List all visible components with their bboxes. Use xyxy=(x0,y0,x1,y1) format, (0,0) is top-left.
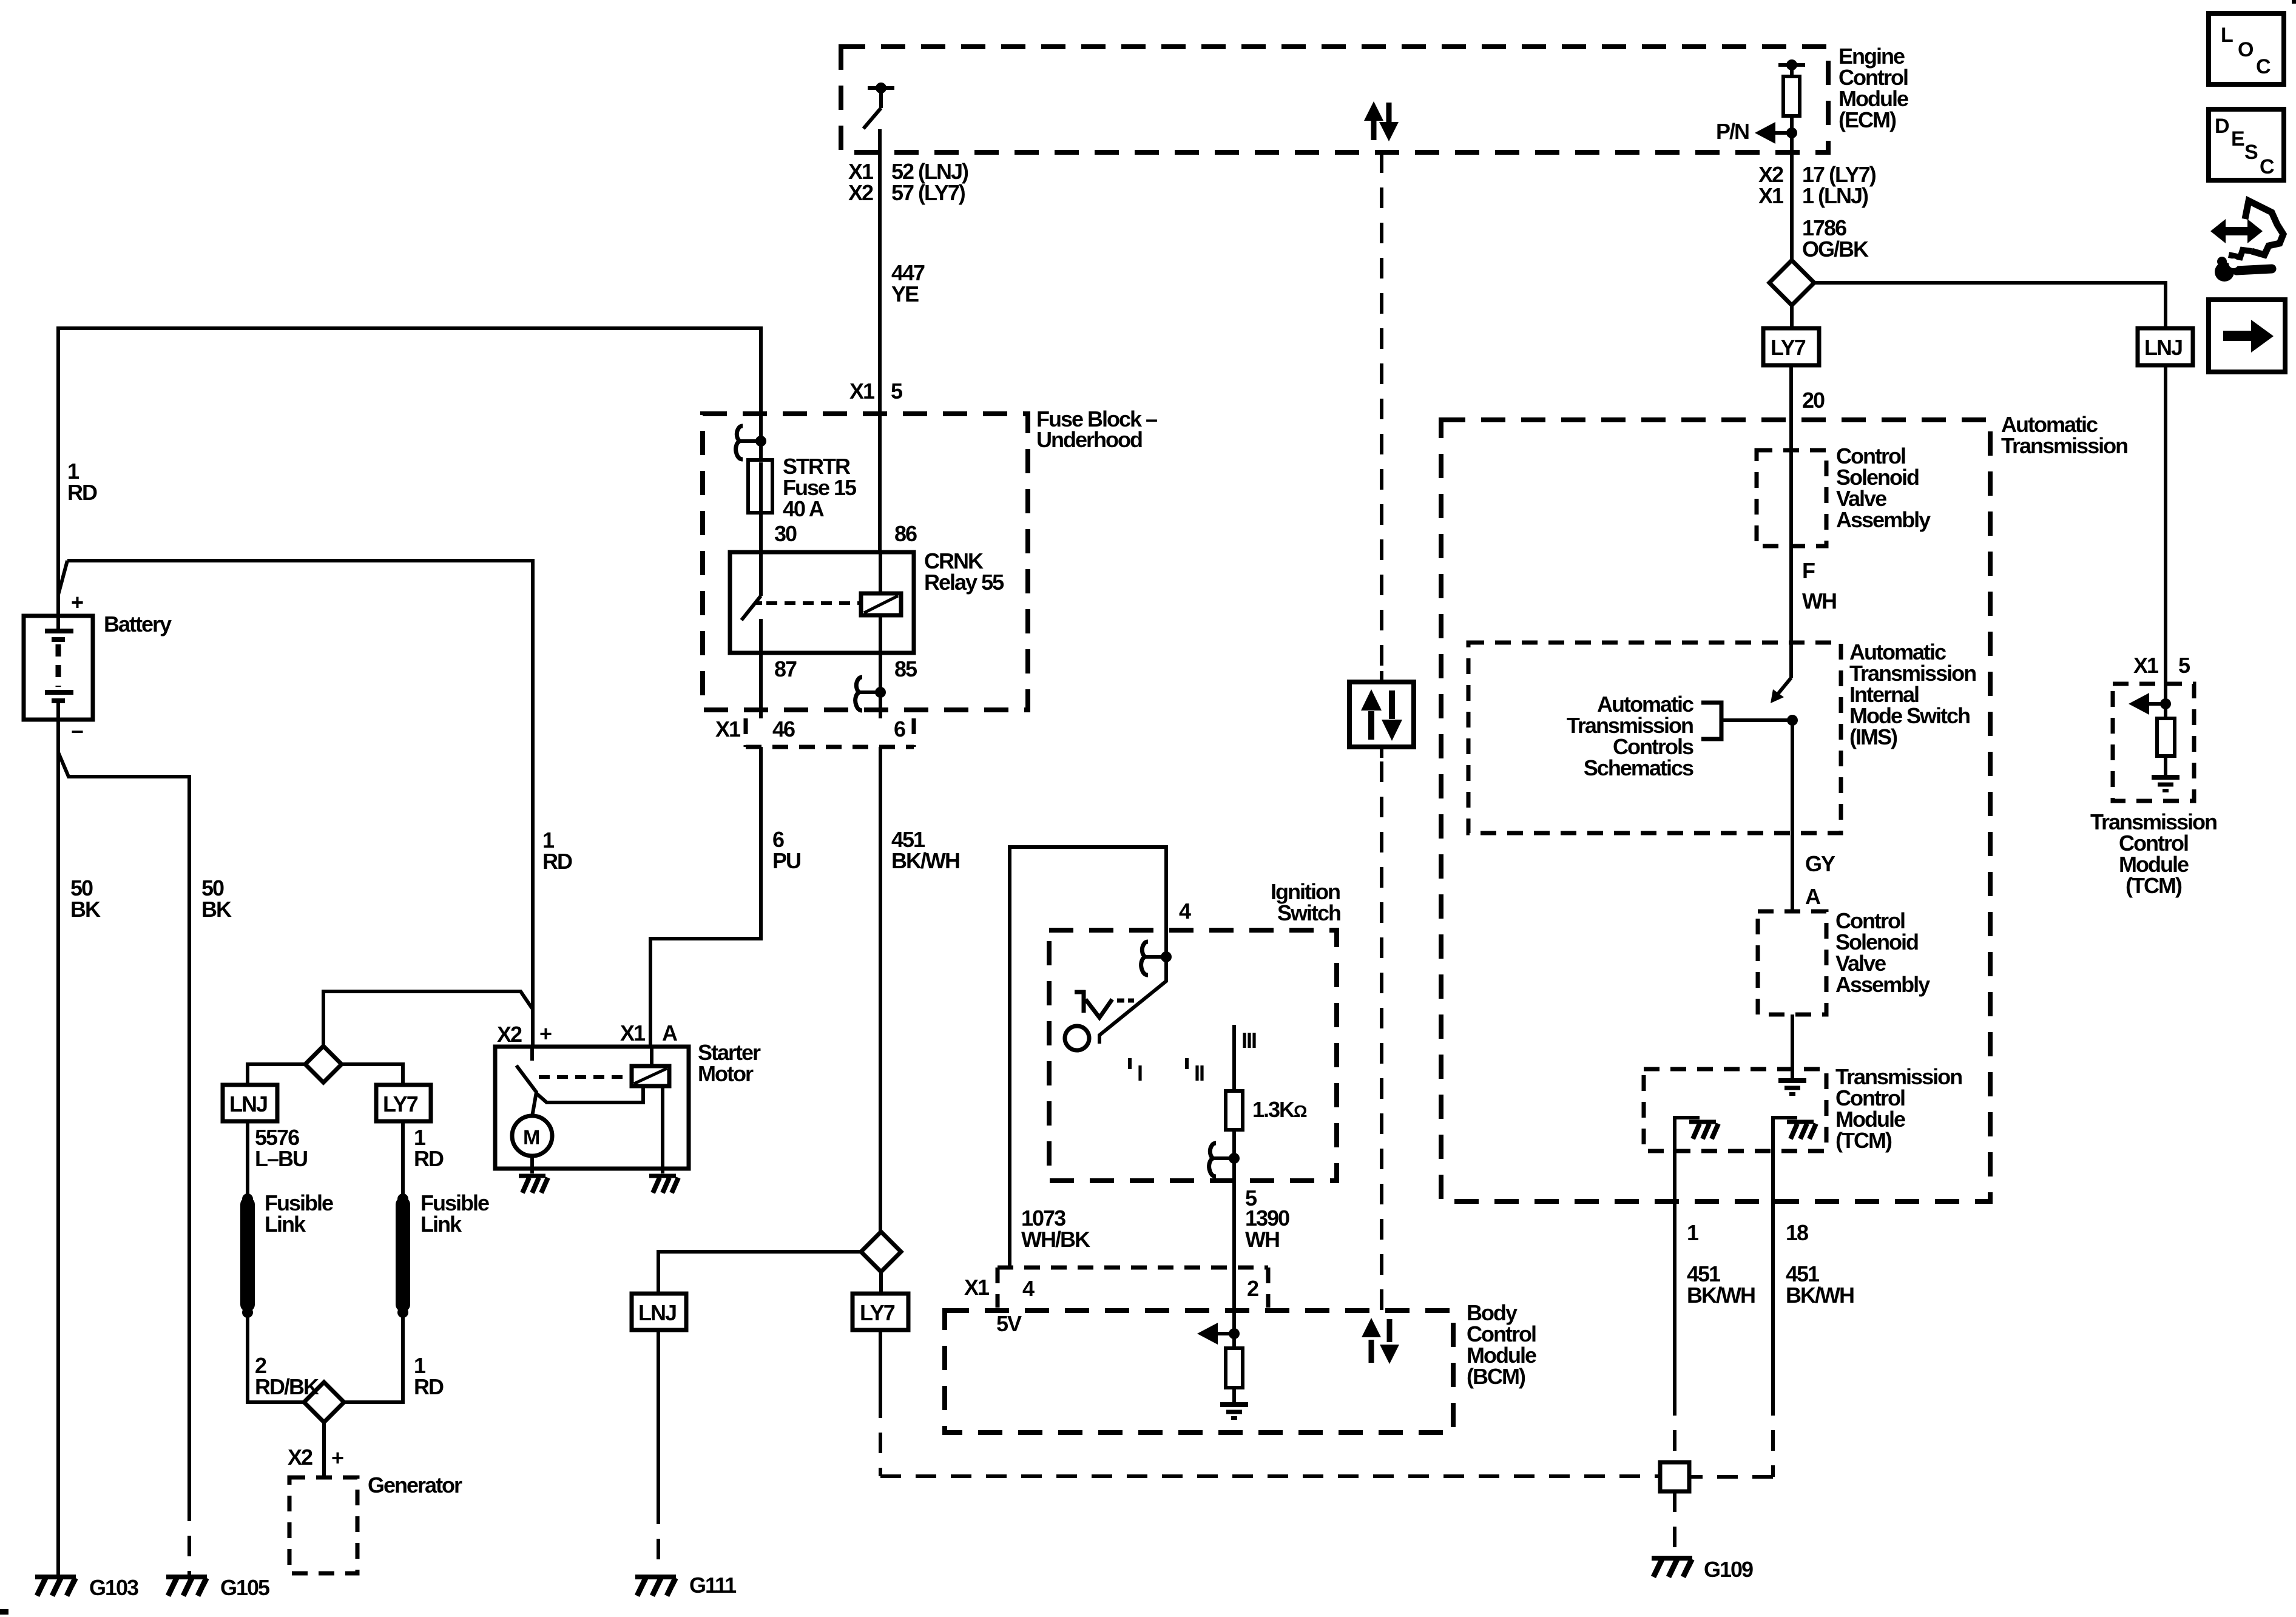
starter relay dashed link xyxy=(539,1075,630,1079)
svg-text:GY: GY xyxy=(1805,851,1835,876)
starter motor box xyxy=(495,1047,689,1169)
svg-text:Transmission: Transmission xyxy=(2001,433,2127,458)
svg-text:BK/WH: BK/WH xyxy=(891,848,959,873)
svg-text:A: A xyxy=(662,1021,678,1045)
svg-text:+: + xyxy=(539,1021,552,1046)
wire pin 87 down xyxy=(759,653,763,718)
wire stub into gear selector icon xyxy=(1380,671,1383,682)
splice diamond 1786 xyxy=(1769,260,1814,305)
wire coil to case ground xyxy=(661,1086,664,1169)
splice diamond 451 xyxy=(861,1232,901,1272)
wire battery positive riser xyxy=(56,326,60,616)
svg-text:18: 18 xyxy=(1786,1220,1808,1245)
svg-text:Battery: Battery xyxy=(104,612,172,636)
wire battery negative down to G103 xyxy=(56,720,60,1575)
svg-text:5: 5 xyxy=(2178,653,2190,678)
svg-text:Relay 55: Relay 55 xyxy=(924,570,1004,595)
TCM earth ground xyxy=(1778,1081,1806,1094)
wire 20 WH inside xyxy=(1789,450,1793,678)
IMS switch blade xyxy=(1777,678,1791,695)
svg-text:M: M xyxy=(523,1126,539,1149)
wire stub below gear selector icon xyxy=(1380,747,1383,758)
svg-text:86: 86 xyxy=(894,521,917,546)
wire 447 YE from ECM xyxy=(878,129,882,552)
splice diamond generator bottom xyxy=(304,1382,344,1422)
connector box LNJ left xyxy=(223,1085,277,1121)
wire diamond to LNJ bottom xyxy=(658,1252,861,1294)
TCM arrow xyxy=(2160,698,2171,709)
connector box LY7 left xyxy=(376,1085,431,1121)
svg-text:Generator: Generator xyxy=(368,1473,462,1497)
svg-text:P/N: P/N xyxy=(1716,119,1749,144)
svg-text:RD: RD xyxy=(414,1374,444,1399)
wire battery feed inside fuse block xyxy=(759,414,763,460)
fusible link left xyxy=(240,1204,255,1305)
starter ground right xyxy=(661,1169,664,1173)
generator dashed box xyxy=(289,1477,357,1573)
svg-text:X1: X1 xyxy=(620,1021,646,1045)
IMS bracket xyxy=(1701,703,1721,739)
wire 46 to starter A xyxy=(650,747,761,1047)
ignition key symbol xyxy=(1075,990,1086,1013)
wire diamond to LNJ xyxy=(248,1064,305,1085)
svg-text:III: III xyxy=(1241,1028,1256,1053)
svg-text:PU: PU xyxy=(772,848,800,873)
svg-text:20: 20 xyxy=(1802,388,1825,413)
svg-text:LNJ: LNJ xyxy=(229,1092,267,1116)
svg-text:G109: G109 xyxy=(1704,1557,1753,1582)
starter ground left xyxy=(530,1169,534,1173)
wire dashed P/N signal to BCM xyxy=(1380,761,1383,1311)
wrench icon xyxy=(2210,201,2283,282)
svg-text:2: 2 xyxy=(1247,1276,1258,1301)
svg-text:F: F xyxy=(1802,558,1815,583)
svg-text:Switch: Switch xyxy=(1277,900,1340,925)
splice diamond generator top xyxy=(305,1046,342,1082)
svg-text:5: 5 xyxy=(891,379,903,403)
relay dashed link xyxy=(766,601,860,605)
junction dot xyxy=(397,1193,408,1204)
ignition lock circle xyxy=(1065,1026,1089,1050)
connector box LNJ right xyxy=(2138,328,2193,365)
svg-text:−: − xyxy=(71,719,83,744)
svg-text:4: 4 xyxy=(1022,1276,1035,1301)
ignition switch dashed box xyxy=(1049,930,1337,1181)
resistor 1.3K xyxy=(1226,1091,1243,1130)
svg-text:X2: X2 xyxy=(848,180,873,205)
svg-text:C: C xyxy=(2256,55,2271,78)
wire to TCM ground xyxy=(1791,1014,1794,1079)
wire 451 pin18 down xyxy=(1771,1151,1775,1395)
svg-text:X2: X2 xyxy=(288,1445,312,1470)
wire battery+ to starter xyxy=(58,561,533,1048)
arrow box xyxy=(2209,300,2285,372)
P/N arrow xyxy=(1773,131,1792,135)
svg-text:L: L xyxy=(2221,24,2233,47)
svg-text:LY7: LY7 xyxy=(383,1092,418,1116)
TCM inner dashed box xyxy=(1644,1069,1826,1151)
svg-text:1 (LNJ): 1 (LNJ) xyxy=(1802,183,1868,208)
page artifacts xyxy=(0,1609,8,1615)
svg-text:(TCM): (TCM) xyxy=(2125,873,2182,898)
svg-text:(TCM): (TCM) xyxy=(1835,1128,1892,1153)
wire A pin to coil xyxy=(650,1047,653,1066)
svg-text:(IMS): (IMS) xyxy=(1849,724,1897,749)
svg-text:85: 85 xyxy=(894,657,917,681)
IMS junction xyxy=(1787,715,1798,726)
svg-text:X1: X1 xyxy=(1758,183,1784,208)
svg-text:Motor: Motor xyxy=(698,1061,754,1086)
svg-text:G105: G105 xyxy=(220,1575,270,1600)
wire BCM pin4 riser to ignition xyxy=(1010,847,1166,1268)
fuse STRTR xyxy=(748,460,772,513)
ECM dashed box xyxy=(841,47,1828,152)
inline connector square xyxy=(1660,1462,1689,1491)
svg-text:RD: RD xyxy=(414,1146,444,1171)
svg-text:46: 46 xyxy=(772,717,795,741)
wire 1390 into BCM xyxy=(1232,1268,1236,1348)
wire square to G109 xyxy=(1673,1491,1676,1553)
svg-text:30: 30 xyxy=(774,521,797,546)
starter motor M xyxy=(512,1116,552,1156)
svg-text:LY7: LY7 xyxy=(860,1300,895,1325)
svg-text:87: 87 xyxy=(774,657,797,681)
svg-text:(BCM): (BCM) xyxy=(1467,1364,1525,1389)
svg-text:BK/WH: BK/WH xyxy=(1687,1283,1755,1308)
wire motor to case ground xyxy=(530,1156,534,1169)
svg-text:5V: 5V xyxy=(996,1311,1022,1336)
wire diamond to LNJ right xyxy=(1814,283,2166,328)
svg-text:X1: X1 xyxy=(849,379,875,403)
svg-text:WH/BK: WH/BK xyxy=(1021,1227,1090,1252)
svg-text:A: A xyxy=(1805,884,1821,909)
TCM resistor xyxy=(2157,718,2175,756)
fusible link right xyxy=(396,1204,410,1305)
wire pin 85 down with hook xyxy=(879,653,882,718)
svg-text:OG/BK: OG/BK xyxy=(1802,237,1869,262)
BCM arrow xyxy=(1215,1332,1234,1335)
svg-text:D: D xyxy=(2215,115,2229,138)
svg-text:X1: X1 xyxy=(715,717,741,741)
svg-text:(ECM): (ECM) xyxy=(1838,107,1896,132)
ignition contact hook xyxy=(1161,951,1172,962)
svg-text:57 (LY7): 57 (LY7) xyxy=(891,180,965,205)
junction dot and hook at fuse top xyxy=(755,436,766,447)
ECM PNP resistor xyxy=(1783,76,1800,116)
wire 451 BK/WH down xyxy=(879,747,882,1232)
svg-text:L–BU: L–BU xyxy=(255,1146,307,1171)
svg-text:+: + xyxy=(71,590,83,615)
svg-text:RD: RD xyxy=(542,849,572,874)
connector box LNJ bottom xyxy=(632,1294,686,1330)
wire top feed to fuse block xyxy=(56,328,761,414)
CRNK relay box xyxy=(730,552,914,653)
control solenoid valve assembly top box xyxy=(1757,450,1826,546)
position I xyxy=(1128,1058,1132,1069)
BCM X1 connector xyxy=(998,1268,1268,1308)
control solenoid valve assembly bottom box xyxy=(1758,911,1826,1014)
svg-text:LY7: LY7 xyxy=(1771,335,1806,360)
wire GY A down xyxy=(1791,720,1794,911)
TCM dashed box right xyxy=(2113,684,2194,801)
svg-text:I: I xyxy=(1137,1061,1142,1085)
svg-text:S: S xyxy=(2244,141,2258,164)
wire 20 into transmission xyxy=(1789,365,1793,450)
ECM crank switch xyxy=(863,88,894,129)
wires merging into generator diamond xyxy=(248,1312,403,1402)
svg-text:Link: Link xyxy=(420,1212,462,1237)
svg-text:G111: G111 xyxy=(689,1573,737,1598)
fuse block dashed box xyxy=(703,414,1028,710)
wire 1786 OG/BK xyxy=(1790,152,1794,260)
connector box LY7 mid xyxy=(1763,328,1819,365)
automatic transmission dashed box xyxy=(1441,420,1990,1201)
svg-text:YE: YE xyxy=(891,282,919,306)
svg-text:Schematics: Schematics xyxy=(1584,755,1693,780)
ECM PNP resistor top bar xyxy=(1778,63,1805,67)
BCM resistor xyxy=(1226,1348,1243,1388)
svg-text:1: 1 xyxy=(1687,1220,1699,1245)
svg-text:LNJ: LNJ xyxy=(638,1300,676,1325)
ECM updown arrows xyxy=(1364,101,1399,141)
svg-text:LNJ: LNJ xyxy=(2144,335,2182,360)
junction dot xyxy=(242,1193,253,1204)
svg-text:X1: X1 xyxy=(2133,653,2159,678)
svg-text:+: + xyxy=(331,1445,343,1470)
svg-text:BK: BK xyxy=(201,897,232,922)
starter solenoid coil xyxy=(632,1066,669,1086)
wire LNJ to G111 xyxy=(657,1330,660,1504)
TCM pin 1 wire xyxy=(1675,1118,1700,1151)
svg-text:G103: G103 xyxy=(89,1575,138,1600)
starter switch xyxy=(516,1048,536,1116)
wire LNJ to fusible link xyxy=(246,1121,249,1312)
TCM pin 18 wire xyxy=(1773,1118,1797,1151)
svg-text:X1: X1 xyxy=(964,1275,990,1300)
wire LY7 dashed to BCM ground rail xyxy=(879,1330,882,1397)
BCM dashed box xyxy=(945,1311,1453,1433)
wire diamond to LY7 xyxy=(1790,305,1794,328)
svg-text:WH: WH xyxy=(1802,589,1836,613)
svg-text:Assembly: Assembly xyxy=(1835,972,1930,997)
svg-text:II: II xyxy=(1194,1061,1204,1085)
wire diamond to LY7 xyxy=(342,1064,403,1085)
relay coil xyxy=(861,593,901,615)
connector box LY7 bottom xyxy=(853,1294,908,1330)
wire fuse to relay pin 30 xyxy=(759,513,763,552)
svg-text:Link: Link xyxy=(265,1212,306,1237)
svg-text:BK: BK xyxy=(70,897,101,922)
wire 1390 WH to BCM xyxy=(1232,1181,1236,1268)
svg-text:C: C xyxy=(2260,155,2274,178)
wire resistor to hook xyxy=(1232,1130,1236,1181)
wire relay coil pins xyxy=(879,552,882,653)
wire 451 pin1 down xyxy=(1673,1151,1676,1395)
wire run position contact xyxy=(1232,1025,1236,1091)
svg-text:Assembly: Assembly xyxy=(1836,507,1931,532)
wire LY7 to fusible link xyxy=(401,1121,405,1312)
battery B1 xyxy=(24,616,93,720)
ignition switch blade xyxy=(1099,957,1166,1044)
svg-text:E: E xyxy=(2231,127,2244,150)
wire branch to G105 xyxy=(58,752,189,1501)
BCM updown arrows xyxy=(1362,1318,1399,1364)
wire LNJ to TCM xyxy=(2164,365,2167,718)
position II xyxy=(1185,1058,1189,1069)
svg-text:6: 6 xyxy=(894,717,905,741)
svg-text:BK/WH: BK/WH xyxy=(1786,1283,1854,1308)
svg-text:O: O xyxy=(2238,38,2254,61)
svg-text:4: 4 xyxy=(1179,899,1191,923)
svg-text:Underhood: Underhood xyxy=(1036,427,1142,452)
wire dashed P/N signal from ECM xyxy=(1380,152,1383,667)
DESC box xyxy=(2209,109,2284,180)
ground G105 xyxy=(166,1577,207,1596)
svg-text:40 A: 40 A xyxy=(783,496,825,521)
wire diamond to generator xyxy=(322,1422,326,1477)
svg-text:WH: WH xyxy=(1245,1227,1279,1252)
ground G103 xyxy=(35,1577,76,1596)
boxed updown icon xyxy=(1349,682,1414,747)
junction dot P/N xyxy=(1786,127,1797,138)
BCM ground xyxy=(1220,1405,1248,1418)
LOC box xyxy=(2209,13,2284,84)
wire generator top run xyxy=(323,991,532,1046)
wire diamond to LY7 bottom xyxy=(879,1272,883,1294)
relay switch xyxy=(741,552,762,653)
fuse block bottom connector xyxy=(746,718,914,747)
wire coil bottom loop xyxy=(536,1086,643,1102)
svg-text:X2: X2 xyxy=(497,1022,522,1047)
svg-text:RD: RD xyxy=(67,480,97,505)
IMS dashed box xyxy=(1468,643,1841,833)
